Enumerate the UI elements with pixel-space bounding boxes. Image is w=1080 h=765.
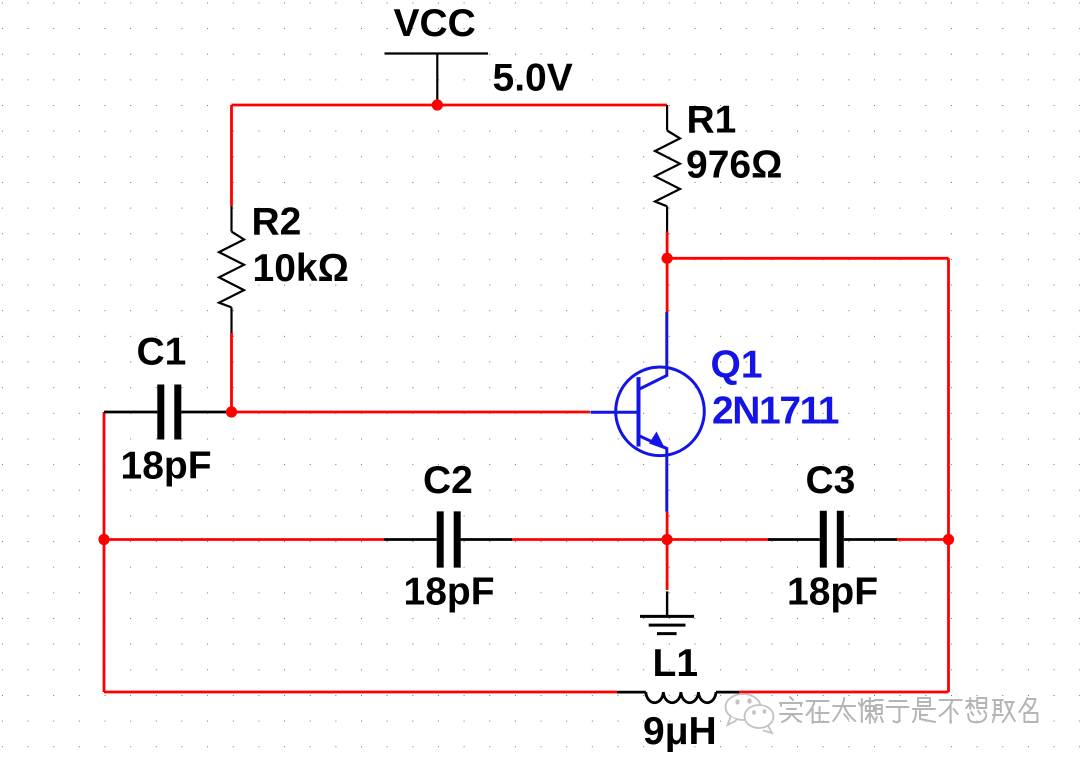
svg-text:C1: C1 (137, 331, 187, 374)
ground (640, 591, 694, 633)
svg-text:18pF: 18pF (404, 570, 495, 613)
wire ground stub (666, 540, 669, 591)
svg-text:10kΩ: 10kΩ (253, 247, 349, 290)
wire middle row center (511, 538, 667, 541)
svg-text:18pF: 18pF (787, 570, 878, 613)
resistor R2 (219, 206, 244, 333)
watermark text (780, 697, 1037, 723)
transistor Q1 (591, 312, 705, 512)
svg-text:976Ω: 976Ω (686, 144, 782, 187)
wire collector row (667, 257, 948, 260)
wire collector stub (666, 258, 669, 312)
wire R2 column upper (230, 105, 233, 206)
wire middle row right (667, 538, 770, 541)
svg-text:9μH: 9μH (643, 710, 717, 753)
svg-text:18pF: 18pF (121, 445, 212, 488)
svg-text:2N1711: 2N1711 (712, 389, 839, 432)
svg-text:C2: C2 (423, 459, 473, 502)
svg-text:VCC: VCC (394, 2, 476, 45)
svg-text:R1: R1 (687, 99, 737, 142)
junction node VCC (432, 99, 443, 110)
capacitor C1 (104, 385, 228, 440)
wire VCC top rail (232, 104, 668, 107)
wire R2 column lower (230, 333, 233, 412)
resistor R1 (655, 105, 680, 232)
svg-text:5.0V: 5.0V (493, 56, 573, 99)
svg-text:C3: C3 (806, 459, 856, 502)
wire left rail (103, 412, 106, 692)
wire emitter stub (666, 512, 669, 540)
svg-text:L1: L1 (653, 642, 699, 685)
svg-text:Q1: Q1 (711, 344, 763, 387)
wire base row (232, 411, 591, 414)
watermark wechat icon (726, 694, 774, 733)
junction node base (226, 406, 237, 417)
junction node emitter (662, 534, 673, 545)
capacitor C2 (384, 511, 512, 567)
power VCC symbol (385, 54, 489, 106)
junction node right rail (943, 534, 954, 545)
wire bottom rail right (739, 691, 949, 694)
wire right rail (947, 258, 950, 692)
inductor L1 (617, 692, 739, 703)
junction node left rail (98, 534, 109, 545)
svg-text:R2: R2 (252, 201, 302, 244)
capacitor C3 (768, 511, 897, 568)
wire bottom rail left (104, 691, 617, 694)
wire C3 to right rail (896, 538, 949, 541)
junction node collector (662, 253, 673, 264)
wire middle row left (104, 538, 384, 541)
wire R1 column lower (666, 232, 669, 259)
